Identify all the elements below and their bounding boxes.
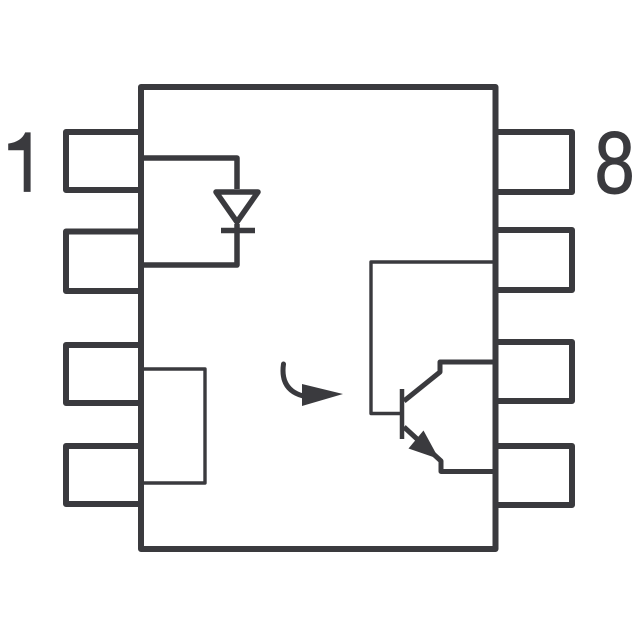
svg-text:8: 8	[595, 114, 635, 212]
